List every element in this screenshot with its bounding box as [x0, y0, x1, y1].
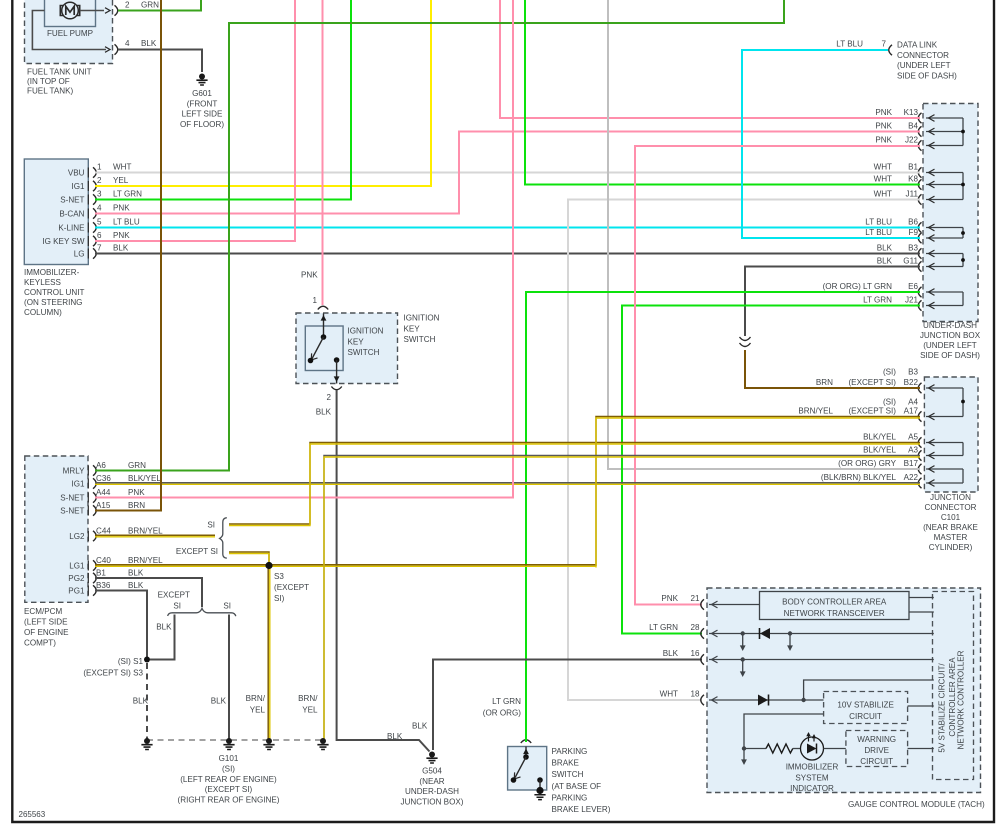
label ECM pin S-NET — [60, 494, 84, 503]
label BLK/YEL A5 — [863, 433, 918, 442]
label BLK 16 — [663, 649, 700, 658]
label body controller area network transceiver — [782, 597, 887, 618]
svg-text:J11: J11 — [906, 190, 919, 199]
svg-text:YEL: YEL — [113, 176, 129, 185]
ECM/PCM box — [25, 456, 88, 602]
wire BRN/YEL LG2 C44 to brace — [95, 535, 215, 537]
pin B22 junction connector C101 — [918, 383, 921, 393]
pin G11 under-dash junction box — [918, 261, 921, 271]
pin A5 junction connector C101 — [918, 437, 921, 447]
svg-text:(FRONT: (FRONT — [187, 99, 218, 108]
wire BLK/YEL IG1 C36 to C101 A22 — [95, 483, 920, 485]
label BLK ignition wire — [316, 408, 332, 417]
label terminal C44 BRN/YEL — [96, 527, 163, 536]
wire BLK LG to under-dash B3 — [95, 253, 920, 255]
junction internal link C101 — [926, 385, 965, 420]
svg-text:PNK: PNK — [875, 122, 892, 131]
svg-text:CIRCUIT: CIRCUIT — [860, 757, 893, 766]
label SI (C44 branch) — [207, 521, 215, 530]
label BRN/YEL A17 — [798, 407, 918, 416]
svg-text:LT GRN: LT GRN — [113, 190, 142, 199]
svg-text:K8: K8 — [908, 175, 918, 184]
svg-text:G11: G11 — [903, 257, 918, 266]
gauge control module box — [707, 588, 981, 793]
svg-text:BRAKE LEVER): BRAKE LEVER) — [552, 805, 611, 814]
label ECM pin LG1 — [69, 562, 85, 571]
svg-text:B4: B4 — [908, 122, 918, 131]
svg-text:B22: B22 — [904, 378, 919, 387]
warning drive circuit box — [846, 731, 908, 767]
label G601 — [180, 89, 224, 129]
label (EXCEPT SI) S3 — [83, 669, 143, 678]
label (SI) B3 alternate pin — [883, 368, 919, 377]
wire BLK PG1 B36 to S1 — [95, 591, 147, 660]
svg-text:B36: B36 — [96, 581, 111, 590]
svg-text:4: 4 — [97, 204, 102, 213]
ground G101 ground at x=147 — [141, 738, 152, 750]
label PNK ignition wire — [301, 271, 318, 280]
svg-text:WHT: WHT — [874, 175, 892, 184]
svg-text:BLK: BLK — [387, 732, 403, 741]
svg-text:5: 5 — [97, 218, 102, 227]
label parking brake switch — [552, 747, 611, 814]
svg-text:BLK: BLK — [128, 581, 144, 590]
svg-text:SYSTEM: SYSTEM — [795, 773, 829, 782]
label wire 6 PNK — [97, 231, 130, 240]
svg-text:(EXCEPT: (EXCEPT — [274, 583, 309, 592]
wire PNK B-CAN to under-dash B4 — [95, 132, 920, 214]
svg-text:(SI): (SI) — [883, 398, 896, 407]
svg-text:PARKING: PARKING — [552, 793, 588, 802]
ground G601 — [196, 74, 207, 86]
svg-text:(RIGHT REAR OF ENGINE): (RIGHT REAR OF ENGINE) — [178, 796, 280, 805]
svg-text:C40: C40 — [96, 556, 111, 565]
svg-text:B3: B3 — [908, 368, 918, 377]
svg-text:(EXCEPT SI): (EXCEPT SI) — [848, 378, 896, 387]
diode D2 on pin18 line — [758, 695, 769, 706]
svg-text:BLK: BLK — [663, 649, 679, 658]
label 5V stabilize circuit vertical text — [938, 650, 966, 752]
label under-dash junction box — [920, 321, 981, 360]
pin 18 gauge module — [701, 695, 704, 705]
label BLK gauge 16 drop — [412, 722, 428, 731]
pin J11 under-dash junction box — [918, 194, 921, 204]
junction internal link under-dash box — [926, 169, 965, 203]
wire BLK ignition key switch pin 2 to G504 — [337, 390, 430, 752]
svg-text:FUEL PUMP: FUEL PUMP — [47, 29, 93, 38]
label (OR ORG) GRY B17 — [838, 459, 918, 468]
svg-text:C101: C101 — [941, 513, 961, 522]
svg-text:G504: G504 — [422, 767, 442, 776]
svg-text:BRN/YEL: BRN/YEL — [128, 527, 163, 536]
fuel tank unit box — [25, 0, 113, 64]
pin 5 immobilizer K-LINE — [88, 222, 96, 232]
svg-text:G101: G101 — [219, 754, 239, 763]
svg-text:PNK: PNK — [113, 204, 130, 213]
under-dash junction box — [923, 104, 978, 322]
svg-text:E6: E6 — [908, 282, 918, 291]
svg-text:JUNCTION: JUNCTION — [930, 493, 971, 502]
label terminal C36 BLK/YEL — [96, 474, 161, 483]
pin 7 immobilizer LG — [88, 248, 96, 258]
svg-text:MRLY: MRLY — [63, 467, 85, 476]
pin B1 under-dash junction box — [918, 167, 921, 177]
label BLK G11 — [877, 257, 919, 266]
svg-text:(LEFT SIDE: (LEFT SIDE — [24, 618, 68, 627]
svg-text:WHT: WHT — [874, 190, 892, 199]
wire BRN/YEL C44 EXCEPT SI branch to S3 — [229, 552, 269, 566]
resistor R1 immobilizer indicator — [744, 744, 801, 753]
svg-text:A17: A17 — [904, 407, 919, 416]
label terminal C40 BRN/YEL — [96, 556, 163, 565]
label immobilizer-keyless control unit — [24, 268, 84, 317]
svg-text:BRN/: BRN/ — [298, 694, 318, 703]
label ECM pin PG2 — [68, 574, 85, 583]
label wire 1 WHT — [97, 163, 131, 172]
node junction LED row — [742, 746, 746, 750]
wire GRN fuel pump pin 2 to top — [118, 0, 201, 11]
body controller area network transceiver box U2 — [760, 592, 910, 620]
junction internal link under-dash box — [926, 115, 965, 149]
svg-text:CIRCUIT: CIRCUIT — [849, 712, 882, 721]
pin 2 ignition key switch connector — [331, 387, 341, 390]
svg-text:YEL: YEL — [250, 706, 266, 715]
svg-text:6: 6 — [97, 231, 102, 240]
ground parking brake switch internal — [534, 787, 545, 800]
label immobilizer pin IG KEY SW — [42, 237, 84, 246]
svg-text:K13: K13 — [904, 108, 919, 117]
svg-text:S3: S3 — [274, 572, 284, 581]
switch SW1 ignition key switch contacts — [308, 314, 340, 384]
wire BLK B1 EXCEPT SI branch to S1 — [150, 615, 175, 660]
label immobilizer pin LG — [74, 250, 85, 259]
svg-text:BLK: BLK — [113, 244, 129, 253]
junction internal link under-dash box — [926, 289, 963, 309]
svg-text:BRN/YEL: BRN/YEL — [128, 556, 163, 565]
svg-text:CONNECTOR: CONNECTOR — [924, 503, 976, 512]
wire BRN/YEL S3 to G101 ground — [268, 566, 270, 740]
pin 21 gauge module — [701, 599, 704, 609]
pin B6 under-dash junction box — [918, 222, 921, 232]
svg-text:CONTROL UNIT: CONTROL UNIT — [24, 288, 84, 297]
svg-text:BLK: BLK — [316, 408, 332, 417]
svg-text:OF FLOOR): OF FLOOR) — [180, 120, 224, 129]
svg-text:J21: J21 — [905, 296, 919, 305]
svg-text:EXCEPT: EXCEPT — [158, 591, 190, 600]
svg-text:BRN/: BRN/ — [246, 694, 266, 703]
svg-text:4: 4 — [125, 39, 130, 48]
svg-text:BRN: BRN — [816, 378, 833, 387]
label warning drive circuit — [857, 735, 896, 766]
pin F9 under-dash junction box — [918, 233, 921, 243]
svg-text:EXCEPT SI: EXCEPT SI — [176, 547, 218, 556]
svg-text:SI: SI — [173, 602, 181, 611]
pin 6 immobilizer IG KEY SW — [88, 236, 96, 246]
svg-text:BRN/YEL: BRN/YEL — [798, 407, 833, 416]
svg-text:1: 1 — [312, 296, 317, 305]
label BLK (B1 branch) — [156, 623, 172, 632]
ground arrow internal below pin28 node 2 — [787, 634, 793, 652]
switch SW2 parking brake switch contacts — [511, 747, 543, 790]
label immobilizer pin IG1 — [71, 182, 85, 191]
pin K13 under-dash junction box — [918, 113, 921, 123]
svg-text:SIDE OF DASH): SIDE OF DASH) — [920, 351, 980, 360]
pin A6 ECM/PCM MRLY — [88, 465, 96, 475]
svg-text:A5: A5 — [908, 433, 918, 442]
pin 7 data link connector — [889, 45, 892, 55]
brace SI / EXCEPT SI split at C44 — [220, 518, 227, 559]
motor M1 fuel pump motor symbol — [60, 2, 79, 19]
wire fuel pump internal loop — [32, 11, 106, 50]
label terminal A44 PNK — [96, 488, 145, 497]
LED immobilizer system indicator — [801, 732, 824, 760]
wire LT GRN top to under-dash K8 — [525, 0, 920, 185]
pin A44 ECM/PCM S-NET — [88, 492, 96, 502]
svg-text:GAUGE CONTROL MODULE (TACH): GAUGE CONTROL MODULE (TACH) — [848, 800, 985, 809]
label immobilizer pin K-LINE — [58, 224, 85, 233]
svg-text:B1: B1 — [96, 569, 106, 578]
label pin 2 — [326, 393, 331, 402]
svg-text:CYLINDER): CYLINDER) — [929, 543, 973, 552]
svg-text:16: 16 — [690, 649, 700, 658]
label fuel tank unit — [27, 67, 92, 95]
label BLK B3 — [877, 244, 919, 253]
svg-text:JUNCTION BOX): JUNCTION BOX) — [401, 797, 464, 806]
pin A15 ECM/PCM S-NET — [88, 505, 96, 515]
svg-text:LT BLU: LT BLU — [113, 218, 140, 227]
label terminal B36 BLK — [96, 581, 144, 590]
label G504 — [401, 767, 464, 807]
wire PNK under-dash J22 to gauge pin 21 — [635, 146, 920, 605]
svg-text:BLK/YEL: BLK/YEL — [863, 433, 896, 442]
label WHT B1 — [874, 163, 919, 172]
label immobilizer system indicator — [786, 763, 839, 794]
label immobilizer pin S-NET — [60, 196, 84, 205]
pin E6 under-dash junction box — [918, 287, 921, 297]
label wire 3 LT GRN — [97, 190, 142, 199]
wire GRN MRLY A6 to top — [95, 0, 784, 471]
svg-text:18: 18 — [690, 690, 700, 699]
immobilizer-keyless control unit box — [24, 159, 88, 265]
svg-text:KEYLESS: KEYLESS — [24, 278, 61, 287]
junction internal link under-dash box — [926, 224, 965, 241]
svg-text:(LEFT REAR OF ENGINE): (LEFT REAR OF ENGINE) — [180, 775, 277, 784]
wire PNK top to under-dash K13 — [500, 0, 920, 118]
node S1 junction — [144, 657, 150, 663]
pin 28 gauge module — [701, 628, 704, 638]
svg-text:A4: A4 — [908, 398, 918, 407]
label BLK SI branch ground leg — [211, 697, 227, 706]
wire 10V box right to 5V box — [908, 705, 934, 707]
ignition key switch inner box — [305, 326, 343, 371]
label PNK 21 — [661, 594, 700, 603]
wire BLK gauge pin 16 to G504 — [433, 660, 702, 751]
svg-text:(EXCEPT SI): (EXCEPT SI) — [848, 407, 896, 416]
svg-text:A6: A6 — [96, 461, 106, 470]
wire GRY top to C101 B17 — [608, 0, 920, 469]
svg-text:LG1: LG1 — [69, 562, 85, 571]
wire gauge pin 16 internal — [709, 656, 934, 663]
wire LT GRN under-dash J21 to gauge pin 28 — [622, 306, 920, 634]
svg-text:BLK: BLK — [141, 39, 157, 48]
svg-text:WHT: WHT — [874, 163, 892, 172]
svg-text:LT GRN: LT GRN — [863, 296, 892, 305]
label BLK/YEL A3 — [863, 446, 918, 455]
pin C36 ECM/PCM IG1 — [88, 478, 96, 488]
node junction pin18 line — [801, 698, 805, 702]
wire LT BLU data link connector to under-dash F9 — [742, 50, 920, 238]
svg-text:PNK: PNK — [875, 108, 892, 117]
svg-text:G601: G601 — [192, 89, 212, 98]
svg-text:A3: A3 — [908, 446, 918, 455]
pin A22 junction connector C101 — [918, 478, 921, 488]
svg-text:A15: A15 — [96, 501, 111, 510]
svg-text:COMPT): COMPT) — [24, 639, 56, 648]
pin 1 immobilizer VBU — [88, 167, 96, 177]
svg-text:GRN: GRN — [128, 461, 146, 470]
svg-text:WHT: WHT — [660, 690, 678, 699]
svg-text:LT GRN: LT GRN — [649, 623, 678, 632]
wire BRN splice to C101 B22 — [745, 350, 920, 388]
svg-text:KEY: KEY — [404, 324, 421, 333]
svg-text:BLK/YEL: BLK/YEL — [128, 474, 161, 483]
svg-text:PNK: PNK — [113, 231, 130, 240]
10V stabilize circuit box — [824, 692, 908, 724]
label EXCEPT SI (B1 branch) — [158, 591, 190, 611]
label BRN/YEL S3 ground leg — [246, 694, 266, 715]
svg-text:IG1: IG1 — [71, 480, 85, 489]
label wire 7 BLK — [97, 244, 129, 253]
svg-text:B6: B6 — [908, 218, 918, 227]
svg-text:OF ENGINE: OF ENGINE — [24, 628, 69, 637]
svg-text:SWITCH: SWITCH — [552, 770, 584, 779]
svg-text:A22: A22 — [904, 473, 919, 482]
label ECM pin MRLY — [63, 467, 85, 476]
wire gauge pin 18 internal — [709, 697, 824, 704]
label ignition key switch (outer) — [404, 314, 440, 345]
svg-text:IG1: IG1 — [71, 182, 85, 191]
ground G101 ground at x=229 — [223, 738, 234, 750]
svg-text:JUNCTION BOX: JUNCTION BOX — [920, 331, 981, 340]
pin A3 junction connector C101 — [918, 450, 921, 460]
svg-text:FUEL TANK UNIT: FUEL TANK UNIT — [27, 67, 92, 76]
pin K8 under-dash junction box — [918, 179, 921, 189]
svg-text:(OR ORG) GRY: (OR ORG) GRY — [838, 459, 896, 468]
svg-text:SI): SI) — [274, 594, 285, 603]
5V stabilize circuit / CAN controller box — [933, 592, 974, 780]
svg-text:B-CAN: B-CAN — [59, 210, 84, 219]
svg-text:YEL: YEL — [302, 706, 318, 715]
svg-text:2: 2 — [326, 393, 331, 402]
wire WHT under-dash J11 to gauge pin 18 — [568, 200, 920, 701]
wire LT GRN S-NET to top — [95, 0, 351, 200]
svg-text:LT BLU: LT BLU — [865, 218, 892, 227]
wire PNK S-NET A44 to top — [95, 0, 513, 498]
label (OR ORG) LT GRN E6 — [823, 282, 919, 291]
label BLK near G504 diagonal — [387, 732, 403, 741]
svg-text:7: 7 — [97, 244, 102, 253]
pin A17 junction connector C101 — [918, 411, 921, 421]
svg-text:LG: LG — [74, 250, 85, 259]
label data link connector — [897, 41, 957, 81]
wire BLK S1 to G101 dashed — [146, 663, 148, 740]
node junction pin28 line 2 — [788, 631, 792, 635]
ground G101 ground at x=323 — [317, 738, 328, 750]
label junction connector C101 — [923, 493, 978, 552]
label BRN/YEL A3 ground leg — [298, 694, 318, 715]
svg-text:BRN: BRN — [128, 501, 145, 510]
wire LT BLU K-LINE to under-dash B6 — [95, 227, 920, 229]
svg-text:(UNDER LEFT: (UNDER LEFT — [897, 61, 951, 70]
svg-text:(NEAR BRAKE: (NEAR BRAKE — [923, 523, 978, 532]
label gauge control module (TACH) — [848, 800, 985, 809]
label immobilizer pin VBU — [68, 169, 85, 178]
svg-text:CONNECTOR: CONNECTOR — [897, 51, 949, 60]
ground arrow internal below pin16 node — [740, 660, 746, 678]
label WHT 18 — [660, 690, 700, 699]
pin 16 gauge module — [701, 654, 704, 664]
label EXCEPT SI (C44 branch) — [176, 547, 218, 556]
svg-text:S-NET: S-NET — [60, 494, 84, 503]
pin J22 under-dash junction box — [918, 140, 921, 150]
label BRN B22 — [816, 378, 919, 387]
svg-text:C44: C44 — [96, 527, 111, 536]
svg-text:BLK: BLK — [211, 697, 227, 706]
wire pin18 branch up to 5V box — [804, 680, 934, 700]
svg-text:PG1: PG1 — [68, 587, 85, 596]
svg-text:B17: B17 — [904, 459, 919, 468]
svg-text:(IN TOP OF: (IN TOP OF — [27, 77, 70, 86]
svg-text:LT GRN: LT GRN — [492, 697, 521, 706]
svg-text:NETWORK TRANSCEIVER: NETWORK TRANSCEIVER — [784, 609, 885, 618]
svg-text:BLK: BLK — [156, 623, 172, 632]
pin B1 ECM/PCM PG2 — [88, 573, 96, 583]
label ECM/PCM — [24, 607, 69, 648]
svg-text:(EXCEPT SI): (EXCEPT SI) — [205, 785, 253, 794]
svg-text:BLK: BLK — [877, 257, 893, 266]
node junction pin16 line — [741, 657, 745, 661]
label ECM pin S-NET — [60, 507, 84, 516]
pin B3 under-dash junction box — [918, 248, 921, 258]
label ECM pin IG1 — [71, 480, 85, 489]
svg-text:COLUMN): COLUMN) — [24, 308, 62, 317]
parking brake switch box — [508, 747, 547, 791]
label (SI) S1 — [118, 657, 144, 666]
svg-text:PNK: PNK — [661, 594, 678, 603]
label (SI) A4 alternate pin — [883, 398, 919, 407]
wire BLK B1 SI branch to G101 — [228, 615, 230, 741]
svg-text:(EXCEPT SI) S3: (EXCEPT SI) S3 — [83, 669, 143, 678]
junction connector C101 box — [924, 377, 978, 492]
splice wire joint — [740, 337, 751, 347]
svg-text:3: 3 — [97, 190, 102, 199]
label PNK B4 — [875, 122, 918, 131]
svg-text:5V STABILIZE CIRCUIT/: 5V STABILIZE CIRCUIT/ — [938, 663, 947, 753]
wire gauge pin 28 internal — [709, 630, 934, 637]
label FUEL PUMP — [47, 29, 93, 38]
pin 2 fuel tank unit connector — [105, 5, 118, 15]
svg-text:(BLK/BRN) BLK/YEL: (BLK/BRN) BLK/YEL — [821, 473, 897, 482]
label pin 4 BLK — [125, 39, 157, 48]
ground G101 ground at x=269 — [263, 738, 274, 750]
wire gauge pin 21 to transceiver — [709, 601, 760, 608]
wire BRN/YEL C44 SI branch to C101 A5 — [229, 443, 920, 526]
label terminal A6 GRN — [96, 461, 146, 470]
fuel pump inner box — [45, 0, 96, 27]
svg-text:LT BLU: LT BLU — [865, 228, 892, 237]
label ECM pin LG2 — [69, 532, 85, 541]
svg-text:VBU: VBU — [68, 169, 85, 178]
